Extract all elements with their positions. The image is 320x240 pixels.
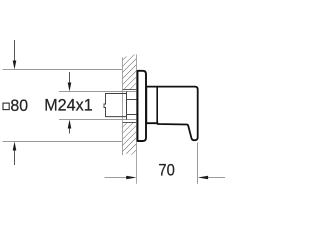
svg-text:M24x1: M24x1 xyxy=(44,96,92,115)
valve body rectangle with left notch xyxy=(104,94,127,117)
valve stem line lower xyxy=(127,114,137,116)
wall hole bottom edge xyxy=(122,122,137,124)
text 80 xyxy=(10,96,28,115)
dim M24 top arrow tail xyxy=(69,72,71,84)
dim ext line top of 80 xyxy=(3,69,122,71)
dim ext line bottom of M24x1 xyxy=(59,119,137,121)
dim 70 right arrowhead xyxy=(198,176,208,179)
escutcheon plate xyxy=(138,71,147,141)
square symbol of square-80 label xyxy=(3,103,9,110)
dim 70 left arrowhead xyxy=(126,176,136,179)
dim 80 bottom arrow tail xyxy=(14,150,16,165)
text 70 xyxy=(158,160,175,179)
wall right face / 70-dim left extension line xyxy=(136,55,138,184)
svg-text:80: 80 xyxy=(10,96,28,115)
handle neck joint line xyxy=(156,87,158,123)
dim 80 top arrow tail xyxy=(14,40,16,62)
dim 70 right extension line xyxy=(197,143,199,184)
wall hatch upper block xyxy=(122,54,137,90)
dim 70 right line xyxy=(206,177,225,179)
wall hatch lower block xyxy=(122,123,137,156)
text M24x1 xyxy=(44,96,92,115)
svg-text:70: 70 xyxy=(158,160,175,179)
wall left edge line xyxy=(122,57,124,155)
dim ext line bottom of 80 xyxy=(3,141,122,143)
dim M24 bottom arrowhead xyxy=(68,120,72,129)
wall hole top edge xyxy=(122,89,137,91)
dim 80 bottom arrowhead xyxy=(13,142,17,151)
dim 70 left line xyxy=(105,177,129,179)
dim 80 top arrowhead xyxy=(13,61,17,70)
handle outline xyxy=(146,87,197,141)
dim M24 bottom arrow tail xyxy=(69,127,71,133)
valve bushing right-edge vertical xyxy=(126,92,128,120)
valve stem line upper xyxy=(127,99,137,101)
dim M24 top arrowhead xyxy=(68,83,72,92)
dim ext line top of M24x1 xyxy=(59,91,137,93)
